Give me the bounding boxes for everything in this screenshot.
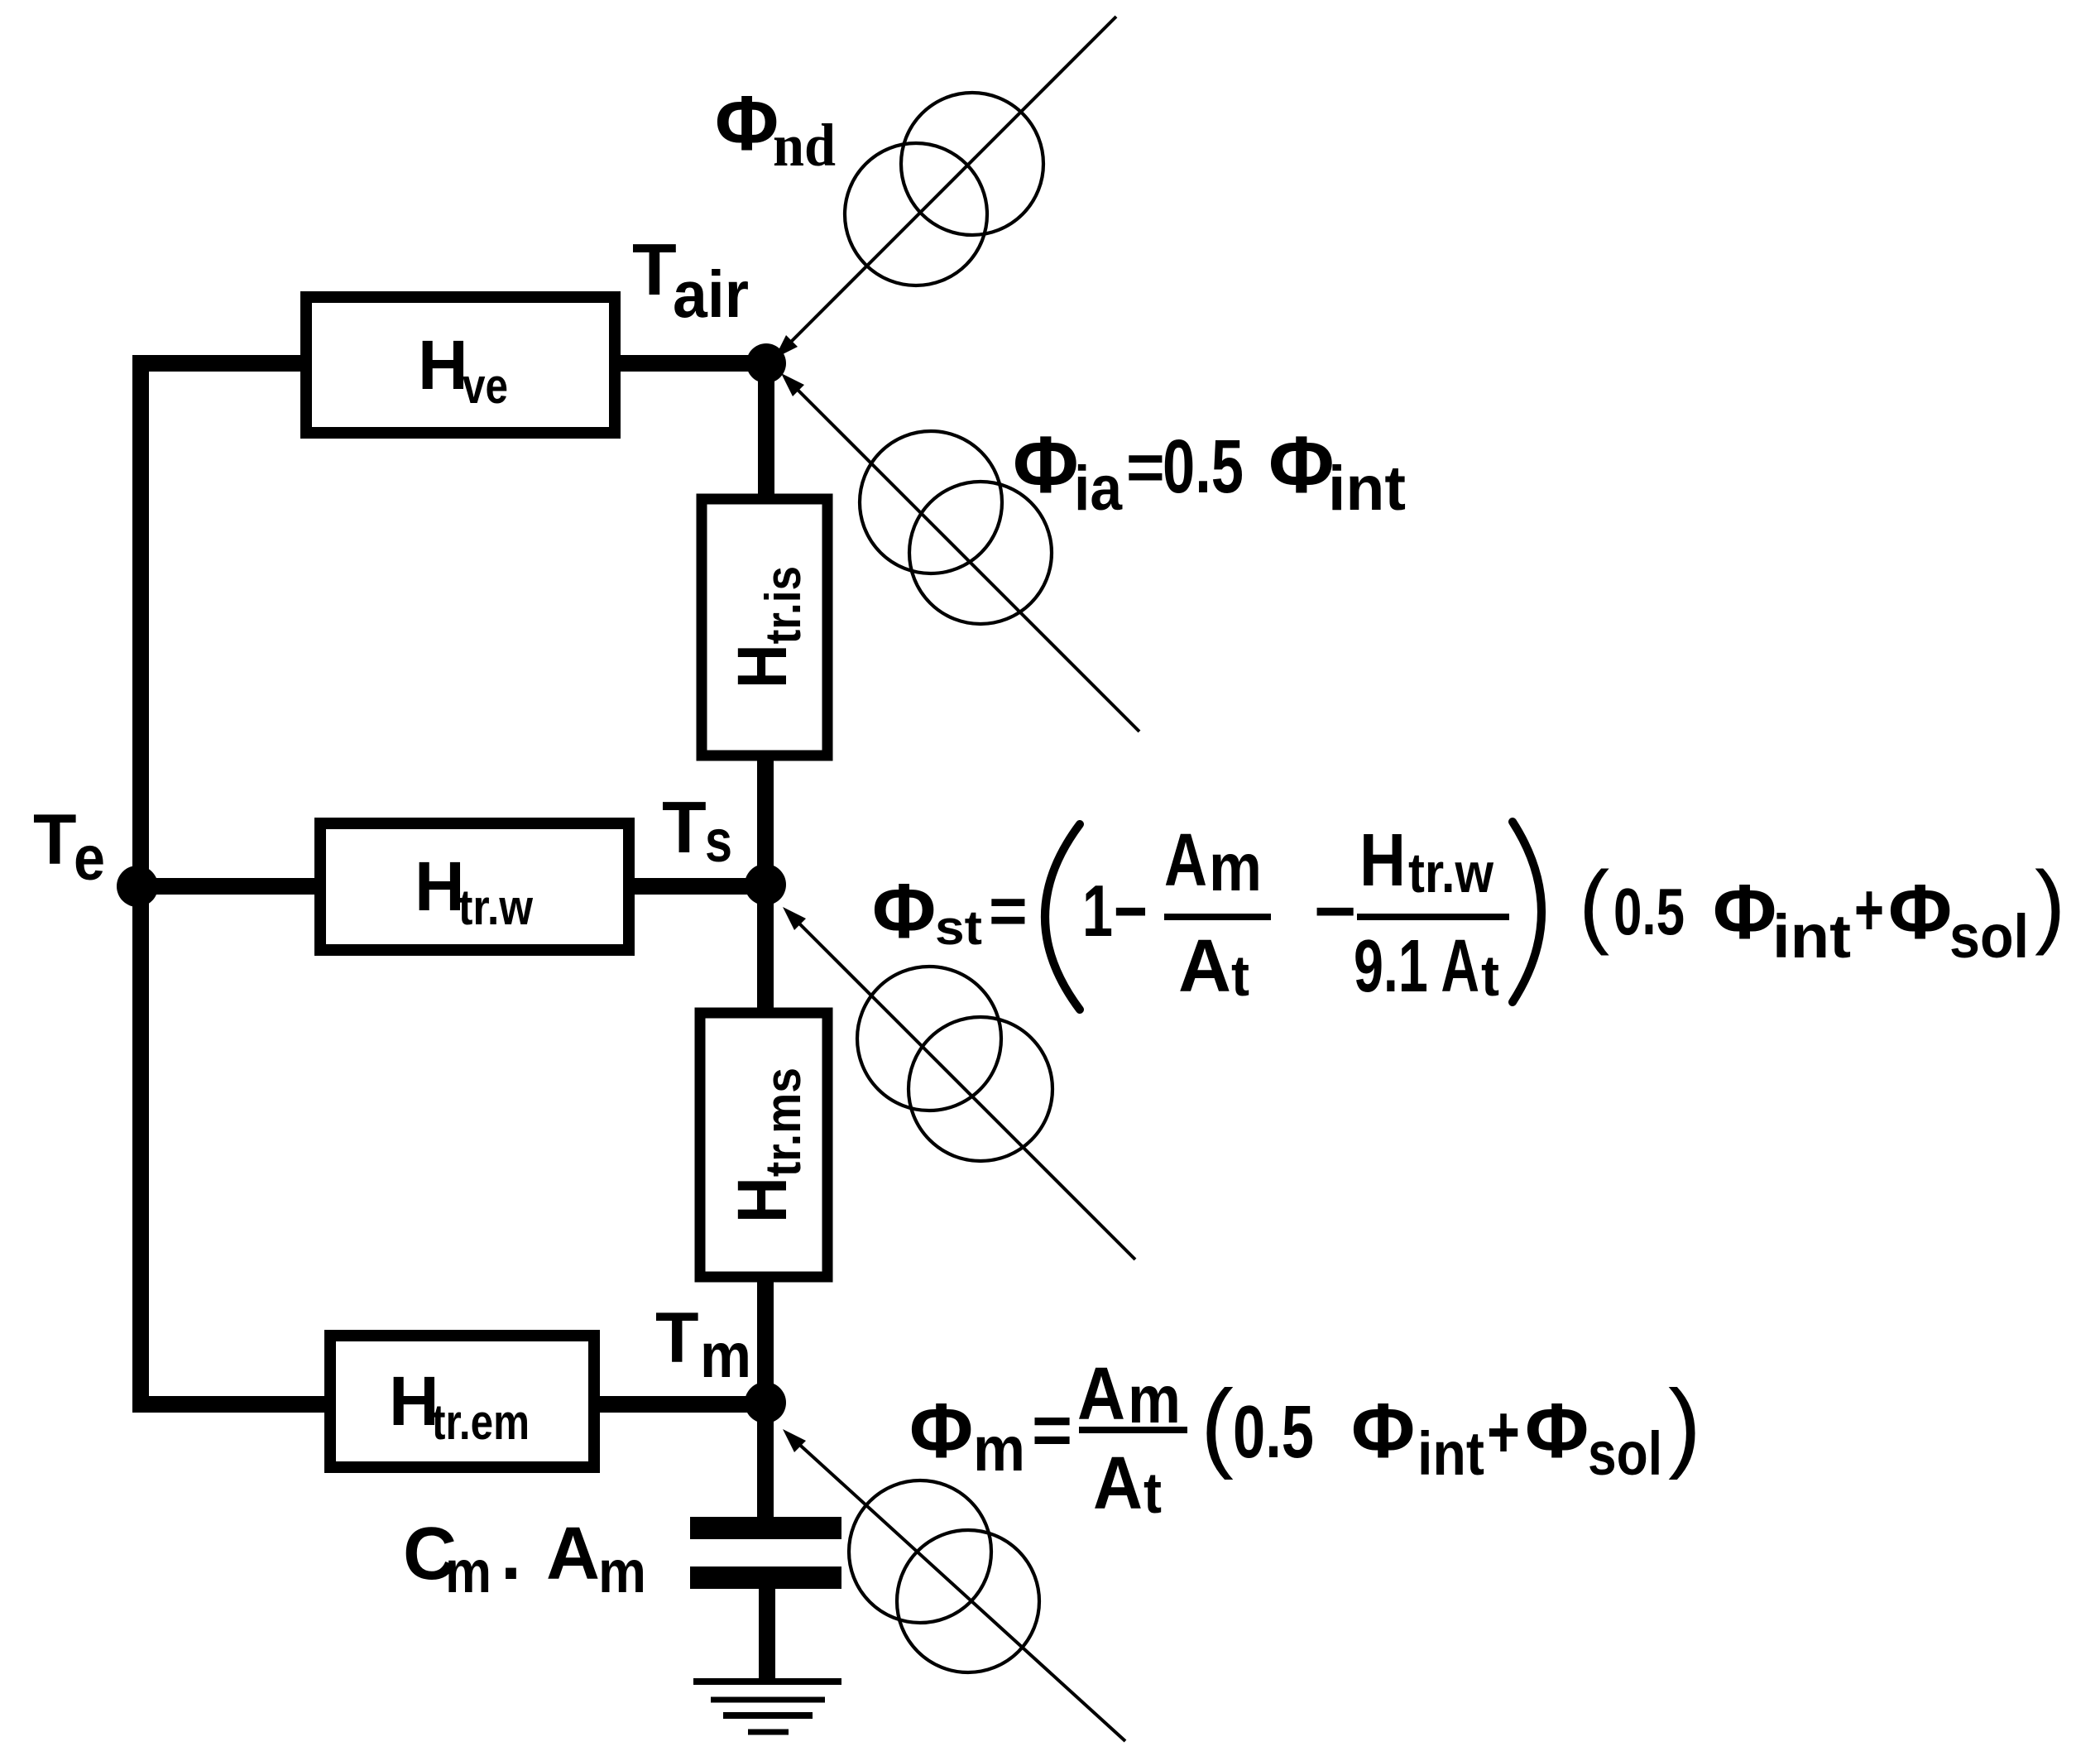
svg-text:T: T	[662, 786, 707, 868]
svg-text:st: st	[935, 901, 982, 955]
svg-text:A: A	[546, 1513, 600, 1595]
resistor H_tr.is	[702, 499, 827, 756]
svg-text:Φ: Φ	[909, 1387, 973, 1474]
wire H_tr.is bottom through node T_s to H_tr.ms top	[757, 758, 774, 1010]
svg-text:1: 1	[1082, 870, 1113, 952]
svg-text:m: m	[1209, 830, 1262, 905]
svg-text:9.1 A: 9.1 A	[1354, 925, 1479, 1008]
svg-text:−: −	[1114, 870, 1148, 952]
heat source symbol Phi_nd	[845, 93, 1043, 285]
svg-text:tr.em: tr.em	[432, 1394, 530, 1450]
svg-text:+: +	[1854, 869, 1884, 952]
arrow Phi_m into node T_m	[794, 1440, 1125, 1741]
svg-text:−: −	[1314, 870, 1356, 952]
wire H_ve right to node T_air	[621, 355, 766, 372]
svg-text:(: (	[1201, 1370, 1234, 1480]
resistor H_tr.em	[330, 1336, 594, 1467]
wire node T_m down to capacitor	[757, 1404, 774, 1519]
svg-text:H: H	[415, 847, 465, 925]
svg-text:m: m	[973, 1414, 1025, 1485]
big left paren	[1045, 824, 1080, 1010]
svg-text:Φ: Φ	[1351, 1387, 1415, 1474]
svg-text:): )	[1668, 1370, 1701, 1480]
svg-text:e: e	[74, 823, 105, 894]
svg-text:Φ: Φ	[1268, 420, 1335, 510]
svg-text:H: H	[1359, 819, 1406, 902]
svg-text:0.5: 0.5	[1613, 875, 1685, 948]
svg-text:A: A	[1093, 1442, 1143, 1525]
svg-text:+: +	[1487, 1391, 1520, 1474]
svg-text:m: m	[700, 1321, 751, 1391]
wire left rail with top and bottom horizontal runs	[141, 363, 324, 1404]
svg-text:air: air	[673, 257, 749, 331]
arrow Phi_ia into node T_air	[793, 385, 1139, 732]
svg-text:=: =	[1126, 430, 1165, 504]
svg-text:Φ: Φ	[1888, 868, 1952, 955]
svg-text:H: H	[418, 326, 468, 404]
svg-text:nd: nd	[773, 112, 836, 179]
svg-text:Φ: Φ	[1525, 1387, 1589, 1474]
svg-text:A: A	[1178, 925, 1231, 1008]
capacitor C_m.A_m top plate	[690, 1517, 841, 1539]
big right paren	[1513, 822, 1541, 1002]
svg-text:Φ: Φ	[872, 867, 936, 954]
svg-text:=: =	[1032, 1391, 1072, 1469]
wire node T_air down to H_tr.is	[758, 363, 774, 497]
node T_m	[745, 1382, 786, 1423]
node T_air	[746, 343, 786, 383]
svg-text:m: m	[1128, 1362, 1181, 1437]
wire H_tr.em right to node T_m	[600, 1396, 765, 1413]
ground	[693, 1682, 841, 1732]
svg-text:sol: sol	[1588, 1419, 1662, 1488]
capacitor C_m.A_m bottom plate	[690, 1566, 841, 1589]
svg-text:t: t	[1481, 943, 1499, 1008]
svg-text:Φ: Φ	[715, 79, 779, 166]
svg-text:A: A	[1077, 1353, 1125, 1436]
svg-text:t: t	[1231, 943, 1249, 1008]
svg-text:A: A	[1164, 819, 1207, 902]
svg-text:T: T	[655, 1298, 699, 1378]
svg-text:.: .	[501, 1513, 521, 1595]
heat source symbol Phi_m	[849, 1480, 1039, 1672]
svg-text:int: int	[1417, 1419, 1484, 1488]
svg-text:T: T	[632, 228, 677, 310]
heat source symbol Phi_ia	[860, 431, 1052, 624]
svg-text:ve: ve	[463, 358, 508, 414]
resistor H_tr.w	[320, 823, 629, 950]
svg-text:tr.w: tr.w	[1408, 842, 1494, 904]
resistor H_tr.ms	[700, 1013, 827, 1277]
svg-text:ia: ia	[1074, 453, 1123, 524]
node T_e	[117, 866, 158, 907]
resistor H_ve	[306, 297, 615, 433]
svg-text:int: int	[1772, 902, 1851, 971]
node T_s	[745, 864, 786, 905]
formula Phi_m	[909, 1353, 1701, 1525]
svg-text:t: t	[1143, 1461, 1162, 1525]
arrow Phi_st into node T_s	[794, 919, 1135, 1259]
wire H_tr.w right to node T_s	[635, 878, 765, 895]
svg-text:int: int	[1328, 453, 1406, 524]
svg-text:=: =	[989, 874, 1028, 948]
formula Phi_st	[872, 819, 2065, 1010]
svg-text:(: (	[1579, 852, 1609, 956]
svg-text:m: m	[598, 1539, 646, 1605]
svg-text:0.5: 0.5	[1233, 1391, 1314, 1474]
svg-text:): )	[2035, 852, 2065, 956]
svg-text:m: m	[445, 1539, 491, 1605]
wire T_e to H_tr.w	[137, 878, 318, 895]
svg-text:Φ: Φ	[1013, 420, 1079, 510]
svg-text:Φ: Φ	[1713, 868, 1776, 955]
formula Phi_ia = 0.5 Phi_int	[1013, 420, 1406, 524]
svg-text:tr.w: tr.w	[458, 880, 533, 935]
svg-text:s: s	[705, 808, 732, 875]
arrow Phi_nd into node T_air	[786, 17, 1116, 347]
svg-text:T: T	[33, 800, 77, 880]
wire capacitor bottom plate to ground	[759, 1587, 775, 1682]
heat source symbol Phi_st	[857, 967, 1052, 1161]
svg-text:0.5: 0.5	[1163, 425, 1244, 509]
svg-text:sol: sol	[1949, 902, 2029, 971]
wire H_tr.ms bottom through node T_m	[757, 1279, 774, 1404]
